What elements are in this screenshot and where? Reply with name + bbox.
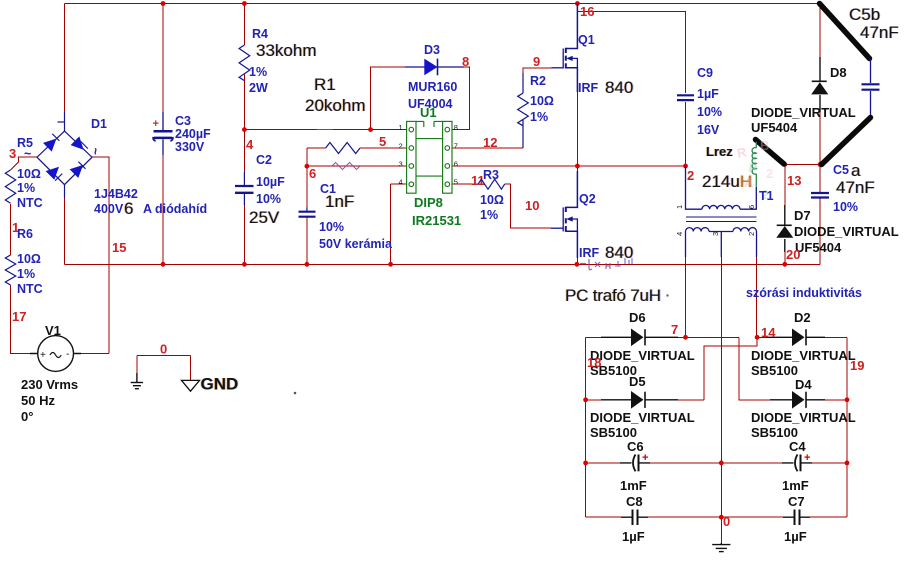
svg-text:4: 4 <box>399 178 403 187</box>
wire bridge bottom pin <box>64 198 66 264</box>
svg-text:10Ω: 10Ω <box>530 94 554 108</box>
node dots top rail <box>161 1 166 6</box>
svg-text:GND: GND <box>201 375 239 394</box>
wire Q2 drain stub <box>576 166 578 171</box>
svg-text:1µF: 1µF <box>697 87 719 101</box>
svg-text:1%: 1% <box>530 110 548 124</box>
svg-text:D6: D6 <box>629 310 646 325</box>
wire U1 pin7 node12 to R2 <box>452 119 523 148</box>
capacitor C8 <box>621 510 648 526</box>
svg-text:C6: C6 <box>627 439 644 454</box>
svg-text:2: 2 <box>747 232 756 236</box>
wire node6 row to U1 pin3 <box>307 165 407 167</box>
svg-text:D5: D5 <box>629 374 646 389</box>
resistor R6 NTC <box>5 255 15 285</box>
svg-text:0°: 0° <box>21 409 33 424</box>
svg-text:D7: D7 <box>794 208 811 223</box>
svg-text:3: 3 <box>9 146 16 161</box>
svg-text:7: 7 <box>671 322 678 337</box>
svg-text:840: 840 <box>605 78 633 97</box>
capacitor C6 <box>620 455 650 472</box>
svg-text:1mF: 1mF <box>620 478 647 493</box>
svg-text:17: 17 <box>12 309 26 324</box>
svg-text:2: 2 <box>399 142 403 151</box>
wire bridge left to R5 <box>11 157 38 353</box>
node dots misc <box>242 127 247 132</box>
transistor Q2 IRF840 <box>551 171 578 258</box>
svg-text:D4: D4 <box>795 377 812 392</box>
svg-text:1: 1 <box>675 205 684 209</box>
wire C5a column <box>819 164 821 264</box>
wire C4 row <box>721 462 847 464</box>
wire C3 column <box>162 4 164 265</box>
svg-text:9: 9 <box>533 54 540 69</box>
wire bottom ground stub <box>720 517 722 543</box>
svg-text:C2: C2 <box>256 153 272 167</box>
svg-text:+: + <box>40 350 46 361</box>
svg-text:20kohm: 20kohm <box>305 96 365 115</box>
thick annotation line C5b to node 13 <box>822 118 871 165</box>
svg-text:10%: 10% <box>319 220 344 234</box>
svg-text:R1: R1 <box>314 75 336 94</box>
svg-text:A diódahíd: A diódahíd <box>143 202 207 216</box>
wire U1 pin4 drop <box>391 184 407 264</box>
wire bridge right to V1 <box>81 157 109 353</box>
svg-text:10Ω: 10Ω <box>17 167 41 181</box>
wire node9 R2 top to Q1 gate <box>523 68 552 93</box>
wire Q1 source to node2 <box>576 92 578 166</box>
svg-text:2: 2 <box>766 166 773 181</box>
capacitor C1 <box>299 208 316 219</box>
svg-text:0: 0 <box>723 514 730 529</box>
wire Q2 source to bottom rail <box>576 258 578 264</box>
wire D2 row <box>757 336 847 338</box>
svg-text:Q1: Q1 <box>578 33 595 47</box>
svg-text:10Ω: 10Ω <box>480 193 504 207</box>
svg-text:Lrez: Lrez <box>706 144 733 159</box>
ground bottom earth <box>712 543 730 552</box>
svg-text:1: 1 <box>399 123 403 132</box>
svg-text:szórási induktivitás: szórási induktivitás <box>746 286 862 300</box>
diode D3 <box>405 43 469 111</box>
wire node16 row to C9 <box>577 12 685 94</box>
svg-text:2: 2 <box>687 168 694 183</box>
wire D3 anode drop node 4 <box>371 67 405 130</box>
diode D6 <box>590 310 695 378</box>
svg-text:C5b: C5b <box>849 5 880 24</box>
wire right secondary rail <box>846 337 848 517</box>
thick annotation line Lrez to node 13 <box>756 140 785 165</box>
svg-text:3: 3 <box>711 232 720 236</box>
svg-text:1%: 1% <box>17 181 35 195</box>
svg-text:DIODE_VIRTUAL: DIODE_VIRTUAL <box>590 410 695 425</box>
inductor Lrez <box>755 142 757 187</box>
svg-text:MUR160: MUR160 <box>408 80 457 94</box>
wire D6 row node18-7 <box>586 337 770 400</box>
svg-text:DIODE_VIRTUAL: DIODE_VIRTUAL <box>751 410 856 425</box>
capacitor C3 <box>153 112 173 155</box>
svg-text:B: B <box>760 138 769 153</box>
svg-text:5: 5 <box>379 134 386 149</box>
svg-text:7: 7 <box>454 142 458 151</box>
svg-text:400V: 400V <box>94 202 124 216</box>
svg-text:NTC: NTC <box>17 282 43 296</box>
svg-text:19: 19 <box>850 358 864 373</box>
diode D2 <box>751 310 856 378</box>
svg-text:U1: U1 <box>420 105 437 120</box>
svg-text:UF5404: UF5404 <box>795 240 842 255</box>
wire C7 row <box>721 516 847 518</box>
svg-text:8: 8 <box>454 123 458 132</box>
wire left secondary rail <box>585 337 587 517</box>
wire left rail <box>64 4 66 113</box>
diode D4 <box>751 377 856 440</box>
svg-text:330V: 330V <box>175 140 205 154</box>
svg-text:33kohm: 33kohm <box>256 41 316 60</box>
svg-text:IRF: IRF <box>579 246 600 260</box>
wire C1 column <box>306 166 308 264</box>
resistor R5 NTC <box>5 170 15 203</box>
svg-text:6: 6 <box>309 166 316 181</box>
wire D7 column <box>784 164 786 264</box>
resistor R4 <box>239 45 250 81</box>
ghost purple resistor remnant <box>332 163 360 170</box>
svg-text:V1: V1 <box>45 323 61 338</box>
svg-text:NTC: NTC <box>17 196 43 210</box>
diode D5 <box>590 374 695 440</box>
wire T1 secondary drops <box>686 257 757 517</box>
svg-text:47nF: 47nF <box>860 23 899 42</box>
svg-text:D8: D8 <box>830 65 847 80</box>
svg-text:13: 13 <box>787 173 801 188</box>
svg-text:R3: R3 <box>483 168 499 182</box>
svg-text:A: A <box>744 175 754 190</box>
svg-text:6: 6 <box>454 160 458 169</box>
svg-text:4: 4 <box>246 137 254 152</box>
svg-text:3: 3 <box>399 160 403 169</box>
svg-text:SB5100: SB5100 <box>590 425 637 440</box>
svg-text:840: 840 <box>605 243 633 262</box>
ground GND arrow symbol <box>182 380 200 391</box>
bridge rectifier D1 <box>37 112 92 198</box>
svg-text:50 Hz: 50 Hz <box>21 393 55 408</box>
wire top rail <box>65 3 820 5</box>
svg-text:D1: D1 <box>91 117 107 131</box>
svg-text:5: 5 <box>454 178 458 187</box>
op-amp driver U1 DIP8 IR21531 <box>407 121 452 193</box>
svg-text:1nF: 1nF <box>325 192 354 211</box>
svg-text:16: 16 <box>580 4 594 19</box>
capacitor C7 <box>783 510 810 526</box>
resistor R1 (20kohm) <box>326 143 360 154</box>
svg-text:0: 0 <box>160 342 167 357</box>
transformer T1 <box>686 166 757 257</box>
svg-text:IR21531: IR21531 <box>412 213 461 228</box>
transistor Q1 IRF840 <box>552 4 578 93</box>
svg-text:10%: 10% <box>697 105 722 119</box>
svg-text:240µF: 240µF <box>175 127 211 141</box>
svg-text:T1: T1 <box>759 189 774 203</box>
svg-text:2W: 2W <box>249 81 268 95</box>
svg-text:DIODE_VIRTUAL: DIODE_VIRTUAL <box>751 348 856 363</box>
svg-text:10%: 10% <box>833 200 858 214</box>
svg-text:C5: C5 <box>833 163 849 177</box>
svg-text:10%: 10% <box>256 192 281 206</box>
svg-text:+: + <box>153 118 159 130</box>
wire C9 bottom to node2 <box>685 102 687 166</box>
svg-text:DIODE_VIRTUAL: DIODE_VIRTUAL <box>590 348 695 363</box>
svg-text:1%: 1% <box>17 267 35 281</box>
svg-text:-: - <box>66 349 69 360</box>
svg-text:1µF: 1µF <box>784 529 807 544</box>
wire gnd net V1 <box>137 356 191 381</box>
svg-text:1%: 1% <box>249 65 267 79</box>
voltage source V1 <box>30 336 81 372</box>
capacitor C2 <box>235 172 254 205</box>
svg-text:DIODE_VIRTUAL: DIODE_VIRTUAL <box>751 105 856 120</box>
wire U1 pin5 node11 to R3 <box>452 184 551 228</box>
svg-text:6: 6 <box>747 205 756 209</box>
wire C6 row <box>586 462 722 464</box>
svg-text:230 Vrms: 230 Vrms <box>21 377 78 392</box>
wire R4/C2 column <box>243 4 245 265</box>
wire D5 row <box>586 399 705 401</box>
svg-text:1mF: 1mF <box>782 478 809 493</box>
svg-text:C9: C9 <box>697 66 713 80</box>
svg-text:20: 20 <box>786 247 800 262</box>
ghost pink-green marks <box>736 138 774 202</box>
svg-text:PC trafó 7uH: PC trafó 7uH <box>565 286 661 305</box>
wire D3 cathode to U1 pin8 <box>452 67 470 130</box>
wire R1 to U1 pin2 <box>360 147 407 149</box>
wire D8 column <box>819 4 821 165</box>
resistor R3 <box>478 179 505 189</box>
wire C8 row <box>586 516 722 518</box>
svg-text:R6: R6 <box>17 227 33 241</box>
svg-text:C8: C8 <box>626 494 643 509</box>
svg-text:C4: C4 <box>789 439 806 454</box>
svg-text:SB5100: SB5100 <box>751 425 798 440</box>
capacitor C4 <box>782 455 812 472</box>
svg-text:47nF: 47nF <box>836 178 875 197</box>
ghost purple marks on rail <box>580 259 610 270</box>
svg-text:Q2: Q2 <box>579 192 596 206</box>
svg-text:14: 14 <box>761 325 776 340</box>
svg-text:18: 18 <box>587 355 601 370</box>
svg-text:4: 4 <box>675 232 684 236</box>
svg-text:15: 15 <box>112 240 126 255</box>
svg-text:6: 6 <box>124 199 133 218</box>
tiny stray marks <box>294 392 297 395</box>
svg-text:UF5404: UF5404 <box>751 120 798 135</box>
resistor R2 <box>518 73 529 148</box>
svg-text:SB5100: SB5100 <box>751 363 798 378</box>
wire R1 left and node6 drop <box>307 148 326 166</box>
diode D7 <box>776 205 898 255</box>
svg-text:25V: 25V <box>249 208 280 227</box>
svg-text:1µF: 1µF <box>622 529 645 544</box>
svg-text:D2: D2 <box>794 310 811 325</box>
diode D8 <box>751 57 856 135</box>
capacitor C5b <box>862 59 880 117</box>
svg-text:16V: 16V <box>697 123 720 137</box>
node dots rectifier <box>683 335 688 340</box>
capacitor C5a <box>811 192 829 200</box>
wire bottom rail node15 <box>65 263 821 265</box>
svg-text:1%: 1% <box>480 208 498 222</box>
svg-text:8: 8 <box>462 54 469 69</box>
wire D4 row <box>808 399 847 401</box>
svg-text:D3: D3 <box>424 43 440 57</box>
svg-text:R4: R4 <box>252 27 268 41</box>
capacitor C9 <box>677 95 694 100</box>
svg-text:~: ~ <box>89 148 103 155</box>
wire U1 pin6 node2 rail <box>452 165 686 167</box>
wire node14 jog <box>704 337 757 400</box>
svg-text:10: 10 <box>525 198 539 213</box>
svg-text:10µF: 10µF <box>256 175 285 189</box>
svg-text:IRF: IRF <box>578 81 599 95</box>
svg-text:C7: C7 <box>788 494 805 509</box>
svg-text:R2: R2 <box>530 74 546 88</box>
svg-text:R5: R5 <box>17 136 33 150</box>
svg-text:DIP8: DIP8 <box>414 195 443 210</box>
svg-text:C3: C3 <box>175 114 191 128</box>
svg-text:12: 12 <box>483 135 497 150</box>
ground earth symbol <box>131 373 143 389</box>
wire node13 row <box>785 163 820 165</box>
node dots bottom rail <box>161 262 166 267</box>
svg-text:10Ω: 10Ω <box>17 252 41 266</box>
svg-text:50V kerámia: 50V kerámia <box>319 237 393 251</box>
thick annotation line top to C5b <box>820 4 870 59</box>
wire node4 row to U1 pin1 <box>244 129 406 131</box>
svg-text:DIODE_VIRTUAL: DIODE_VIRTUAL <box>794 224 899 239</box>
